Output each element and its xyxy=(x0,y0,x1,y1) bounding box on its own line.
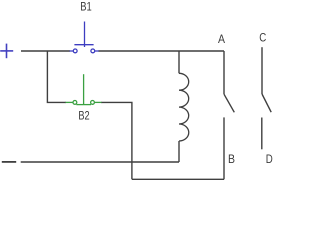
pushbutton B2 (normally closed, green) xyxy=(66,74,102,104)
wire contact D terminal vertical xyxy=(261,118,263,150)
svg-text:A: A xyxy=(218,32,225,46)
plus supply terminal + xyxy=(0,44,13,59)
wire lower bus to contact B xyxy=(132,178,224,180)
minus supply terminal - xyxy=(2,161,16,163)
wire contact B terminal vertical xyxy=(223,117,225,179)
wire B2 right to lower bus (crosses minus wire) xyxy=(101,102,132,179)
wire contact C terminal vertical xyxy=(261,47,263,94)
wire contact A terminal vertical xyxy=(223,51,225,94)
switch contact A-B blade xyxy=(224,94,234,112)
svg-text:C: C xyxy=(259,31,266,45)
wire coil top lead (junction on top bus) xyxy=(178,51,180,73)
pushbutton B1 (normally open, blue) xyxy=(70,22,99,53)
svg-text:B: B xyxy=(228,152,235,166)
wire coil bottom lead xyxy=(178,141,180,162)
wire junction drop to B2 left xyxy=(47,51,66,102)
inductor coil K1 (relay coil, 4 turns) xyxy=(179,73,189,141)
wire top bus right segment (B1 right pin to contact A) xyxy=(98,50,224,52)
switch contact C-D blade xyxy=(262,94,271,112)
svg-text:B2: B2 xyxy=(78,109,90,123)
wire top bus left segment (+ to B1 left pin) xyxy=(21,50,70,52)
svg-text:D: D xyxy=(266,152,273,166)
svg-text:B1: B1 xyxy=(80,0,92,14)
wire minus bus (coil bottom to -) xyxy=(21,161,179,163)
